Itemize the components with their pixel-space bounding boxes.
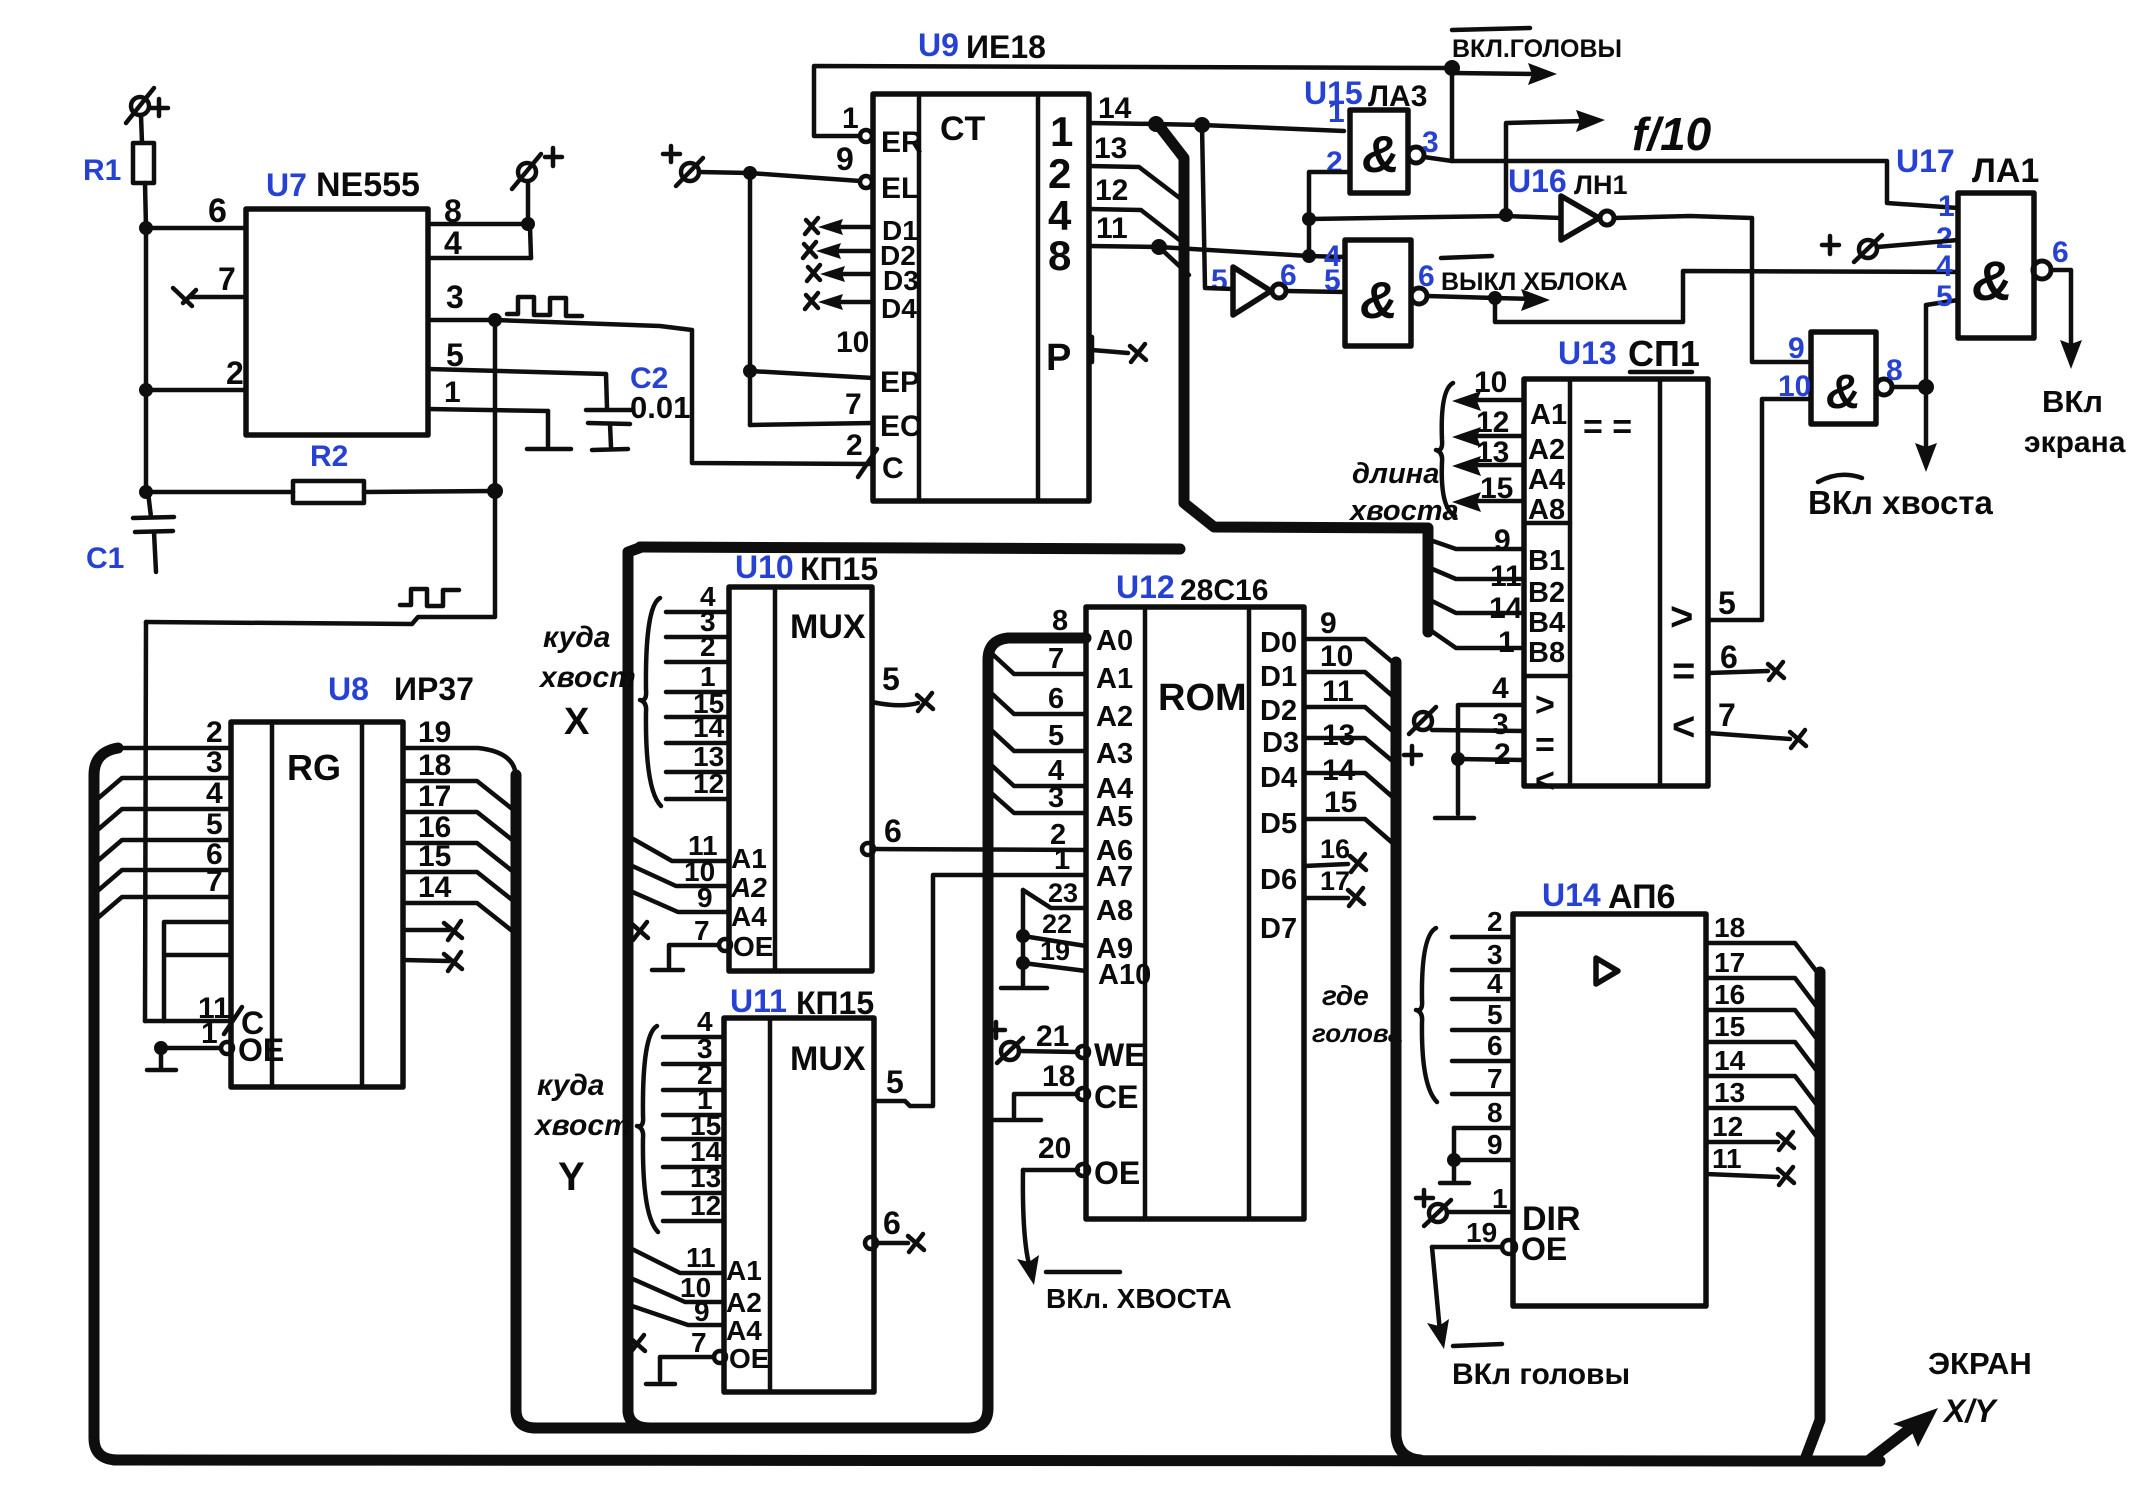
svg-text:11: 11 <box>1712 1143 1742 1174</box>
ROM D1 wire pin10 <box>1304 640 1396 699</box>
wire U7 pin6 <box>139 192 246 235</box>
svg-text:&: & <box>1972 249 2012 312</box>
svg-text:ВКл головы: ВКл головы <box>1452 1358 1630 1391</box>
power symbol +V above R1 <box>126 88 168 143</box>
svg-text:D6: D6 <box>1260 864 1297 896</box>
svg-text:11: 11 <box>1490 560 1522 593</box>
U13 output pin7 with x <box>1708 697 1806 748</box>
label длина хвоста <box>1348 458 1459 527</box>
nand gate element 9/10/8 <box>1778 332 1903 424</box>
U9 output wire 14 <box>1089 92 1344 133</box>
svg-text:АП6: АП6 <box>1608 878 1675 916</box>
svg-text:>: > <box>1535 686 1555 724</box>
U14 input wire 9 tied to 8 and ground <box>1440 1128 1513 1183</box>
square wave symbol at pin3 <box>507 297 582 316</box>
svg-text:6: 6 <box>1048 683 1064 715</box>
svg-text:СП1: СП1 <box>1628 333 1700 374</box>
ROM D4 wire pin14 <box>1304 754 1396 800</box>
svg-text:ЛА1: ЛА1 <box>1972 152 2039 190</box>
svg-text:3: 3 <box>1422 126 1439 159</box>
U11 data input 15 <box>663 1110 724 1141</box>
U13 A4 arrow pin13 <box>1452 436 1565 496</box>
svg-text:A1: A1 <box>731 843 767 874</box>
brace U10 inputs <box>640 598 661 806</box>
mux U10 box <box>729 549 878 971</box>
svg-text:X: X <box>564 701 590 743</box>
svg-text:7: 7 <box>691 1327 707 1358</box>
U13 control pin3 from +V <box>1404 707 1524 764</box>
U11 data input 2 <box>663 1059 724 1090</box>
wire pin3 node down to clock line <box>146 320 495 624</box>
U11 data input 14 <box>663 1136 724 1167</box>
svg-text:голова: голова <box>1312 1018 1403 1048</box>
svg-text:6: 6 <box>1280 259 1297 292</box>
svg-text:0.01: 0.01 <box>630 390 690 425</box>
U8 output wire 18 <box>403 749 516 812</box>
svg-text:5: 5 <box>1718 585 1736 621</box>
svg-text:20: 20 <box>1038 1132 1071 1165</box>
U11 select A2 pin10 <box>626 1272 762 1318</box>
U9 input D3 with x <box>807 265 919 296</box>
ROM A3 wire pin5 <box>988 720 1086 752</box>
U8 input wire 3 <box>94 746 231 802</box>
brace U14 inputs <box>1416 928 1437 1102</box>
svg-text:5: 5 <box>886 1064 904 1100</box>
U11 data input 13 <box>663 1162 724 1193</box>
svg-text:ER: ER <box>881 126 923 159</box>
U8 input wire 6 <box>94 838 231 894</box>
svg-text:ВКл: ВКл <box>2042 384 2103 419</box>
wire clock vertical to U8 C <box>145 622 146 1021</box>
svg-text:8: 8 <box>1886 354 1903 387</box>
svg-text:18: 18 <box>418 749 451 782</box>
U9 input D4 with x <box>805 293 917 324</box>
mux U11 box <box>724 983 874 1392</box>
svg-text:КП15: КП15 <box>800 551 878 587</box>
svg-text:9: 9 <box>1494 524 1511 557</box>
wire U7 pin1 to ground <box>428 376 571 449</box>
svg-text:хвоста: хвоста <box>1348 495 1459 527</box>
U10 data input 2 <box>666 631 729 662</box>
U10 data input 15 <box>666 688 729 719</box>
svg-text:где: где <box>1322 980 1369 1011</box>
thick bus U9 outputs down to comparator B <box>1160 127 1428 632</box>
svg-text:МUХ: МUХ <box>790 608 866 646</box>
U9 pin1 ER wire over the top <box>814 66 1452 159</box>
svg-text:7: 7 <box>218 261 236 297</box>
svg-text:EP: EP <box>880 366 920 399</box>
label куда хвост X <box>538 621 636 743</box>
svg-text:5: 5 <box>1487 999 1503 1030</box>
ROM D3 wire pin13 <box>1304 719 1396 764</box>
svg-text:9: 9 <box>1788 332 1805 365</box>
svg-text:хвост: хвост <box>533 1109 631 1142</box>
ROM A8 wire pin23 <box>1023 878 1086 908</box>
svg-text:OE: OE <box>729 1343 769 1374</box>
svg-text:5: 5 <box>1324 264 1341 297</box>
svg-text:OE: OE <box>1521 1231 1567 1267</box>
U14 output wire 17 <box>1706 947 1820 1011</box>
U8 unused output x stub 1 <box>403 921 462 940</box>
svg-text:D3: D3 <box>1262 727 1299 759</box>
power +V at ROM WE <box>988 1022 1023 1063</box>
svg-text:U17: U17 <box>1896 143 1955 179</box>
wire U17 output 6 arrow ВКл экрана <box>2024 270 2126 459</box>
U8 unused output x stub 2 <box>403 952 462 971</box>
svg-text:9: 9 <box>697 882 713 913</box>
svg-text:экрана: экрана <box>2024 426 2126 459</box>
svg-text:8: 8 <box>444 193 462 229</box>
svg-text:1: 1 <box>1938 190 1955 223</box>
svg-text:ЭКРАН: ЭКРАН <box>1928 1346 2032 1381</box>
svg-text:3: 3 <box>446 279 464 315</box>
svg-text:17: 17 <box>1714 947 1745 978</box>
svg-text:A0: A0 <box>1096 625 1133 657</box>
U14 output wire 18 <box>1706 912 1820 976</box>
ROM D0 wire pin9 <box>1304 607 1396 665</box>
wire U15b output to U17 pin4 <box>1495 271 1958 322</box>
U9 pin10 EP wire <box>743 326 920 399</box>
svg-text:U14: U14 <box>1542 877 1601 913</box>
svg-text:WE: WE <box>1094 1037 1146 1073</box>
svg-text:RG: RG <box>287 747 341 788</box>
svg-text:КП15: КП15 <box>796 985 874 1021</box>
svg-text:A2: A2 <box>1096 701 1133 733</box>
svg-text:ВЫКЛ ХБЛОКА: ВЫКЛ ХБЛОКА <box>1441 268 1628 296</box>
svg-text:длина: длина <box>1352 458 1439 490</box>
U8 output wire 16 <box>403 811 516 874</box>
svg-text:15: 15 <box>418 840 451 873</box>
svg-text:B2: B2 <box>1528 577 1565 609</box>
U13 B labels <box>1528 545 1565 669</box>
svg-text:ИР37: ИР37 <box>394 671 474 707</box>
U14 input wire 4 <box>1452 968 1513 999</box>
U8 left bus thick <box>94 748 118 1460</box>
svg-text:6: 6 <box>1487 1030 1503 1061</box>
thick bus U14 outputs down <box>1806 972 1820 1457</box>
wire U7 pin4 <box>428 225 531 261</box>
svg-text:Y: Y <box>558 1155 585 1199</box>
wire U7 pin7 with x <box>173 261 246 306</box>
U8 pin 11 clock C <box>145 992 264 1041</box>
U14 OE pin19 arrow ВКл головы <box>1427 1217 1630 1391</box>
register U8 box <box>231 671 474 1087</box>
svg-text:A8: A8 <box>1528 494 1565 526</box>
svg-text:19: 19 <box>1466 1217 1497 1248</box>
U11 output 6 with x <box>865 1205 924 1252</box>
U8 output wire 19 <box>403 716 516 778</box>
U8 output wire 15 <box>403 840 516 903</box>
svg-text:U12: U12 <box>1116 569 1175 605</box>
svg-text:10: 10 <box>836 326 869 359</box>
svg-text:14: 14 <box>1322 754 1356 787</box>
U10 output 6 to ROM A6 <box>862 813 1086 855</box>
ROM A2 wire pin6 <box>988 683 1086 715</box>
wire U15b output node ВЫКЛ ХБЛОКА arrow <box>1427 256 1628 311</box>
svg-text:CT: CT <box>940 110 986 148</box>
inverter element 5/6 <box>1211 259 1297 315</box>
U13 output pin6 with x <box>1708 639 1784 680</box>
ROM CE pin18 grounded <box>987 1060 1138 1120</box>
svg-text:11: 11 <box>1096 212 1128 245</box>
U14 input wire 8 <box>1454 1097 1513 1128</box>
svg-text:7: 7 <box>206 865 223 898</box>
svg-text:13: 13 <box>690 1162 721 1193</box>
square wave symbol above U8 <box>400 589 459 606</box>
U13 A8 arrow pin15 <box>1452 472 1565 526</box>
ROM WE pin21 <box>1019 1020 1146 1073</box>
svg-text:6: 6 <box>208 192 227 230</box>
wire counter bit1 to inverter input <box>1202 125 1233 289</box>
svg-text:2: 2 <box>206 716 223 749</box>
svg-text:D7: D7 <box>1260 913 1297 945</box>
svg-text:ЛА3: ЛА3 <box>1368 80 1427 113</box>
U14 output wire 15 <box>1706 1011 1820 1075</box>
U14 input wire 7 <box>1452 1063 1513 1094</box>
svg-text:1: 1 <box>444 376 461 409</box>
svg-text:19: 19 <box>418 716 451 749</box>
power +V at U17 pin2 <box>1822 235 1958 262</box>
comparator B4 tap wire 14 <box>1430 592 1524 625</box>
svg-text:A4: A4 <box>1528 464 1565 496</box>
svg-text:4: 4 <box>206 777 223 810</box>
U8 output wire 14 <box>403 871 516 934</box>
svg-text:1: 1 <box>842 102 859 135</box>
svg-text:2: 2 <box>1487 906 1503 937</box>
U8 input wire 5 <box>94 808 231 864</box>
U9 carry P output with x <box>1046 337 1146 379</box>
svg-text:U13: U13 <box>1558 335 1617 371</box>
svg-text:D0: D0 <box>1260 627 1297 659</box>
U10 output 5 with x <box>872 661 933 711</box>
svg-text:B8: B8 <box>1528 637 1565 669</box>
svg-text:D1: D1 <box>1260 661 1297 693</box>
U8 input wire 7 <box>94 865 231 921</box>
svg-text:NE555: NE555 <box>316 166 420 204</box>
U9 output wire 12 <box>1089 174 1182 242</box>
wire R1 node down to pin2 <box>144 228 149 390</box>
U11 select A1 pin11 <box>626 1242 762 1286</box>
power +V at U9 EL <box>663 146 703 186</box>
op IC U7 NE555 box <box>246 166 428 435</box>
thick bus ROM data down to bottom bus <box>1396 662 1420 1460</box>
svg-text:13: 13 <box>1322 719 1355 752</box>
U11 OE pin7 with ground <box>629 1327 769 1384</box>
svg-text:A8: A8 <box>1096 895 1133 927</box>
svg-text:1: 1 <box>1498 626 1515 659</box>
svg-text:15: 15 <box>1324 786 1357 819</box>
svg-text:18: 18 <box>1042 1060 1075 1093</box>
svg-text:6: 6 <box>884 813 902 849</box>
comparator B1 tap wire 9 <box>1430 524 1524 557</box>
U11 data input 12 <box>663 1190 724 1221</box>
svg-text:9: 9 <box>1320 607 1337 640</box>
svg-text:U11: U11 <box>730 983 787 1019</box>
svg-text:5: 5 <box>1211 264 1228 297</box>
U13 control pin4 <box>1458 672 1524 759</box>
wire comparator out5 to gate pin10 <box>1708 399 1811 620</box>
svg-text:11: 11 <box>686 1242 716 1273</box>
svg-text:1: 1 <box>1054 844 1070 876</box>
f/10 tap arrow <box>1506 108 1712 215</box>
U9 input D2 with x <box>803 240 916 271</box>
svg-text:U16: U16 <box>1508 163 1567 199</box>
U14 input wire 2 <box>1452 906 1513 937</box>
U8 pin 1 OE with ground <box>147 1017 284 1070</box>
U14 input wire 6 <box>1452 1030 1513 1061</box>
wire U16 output to gate pin9 <box>1614 216 1811 362</box>
svg-text:3: 3 <box>206 746 223 779</box>
svg-text:U8: U8 <box>328 671 369 707</box>
svg-text:OE: OE <box>238 1032 284 1068</box>
U14 output 11 with x <box>1706 1143 1794 1185</box>
svg-text:2: 2 <box>1494 738 1511 771</box>
svg-text:&: & <box>1362 126 1400 184</box>
svg-text:2: 2 <box>226 355 244 391</box>
svg-text:МUХ: МUХ <box>790 1040 866 1078</box>
svg-text:21: 21 <box>1036 1020 1069 1053</box>
svg-text:A3: A3 <box>1096 738 1133 770</box>
U9 pin9 EL wire <box>699 141 919 205</box>
U10 OE pin7 with ground <box>632 915 773 970</box>
svg-text:22: 22 <box>1042 909 1072 939</box>
ROM D6 stub pin16 with x <box>1304 834 1366 872</box>
wire gate output 8 node <box>1892 300 1958 395</box>
U8 input wire 2 <box>110 716 231 749</box>
svg-text:X/Y: X/Y <box>1942 1393 1998 1429</box>
label куда хвост Y <box>533 1069 631 1199</box>
comparator B8 tap wire 1 <box>1430 626 1524 659</box>
wire node down to R2/C1 <box>144 390 149 492</box>
capacitor C2 <box>586 362 690 450</box>
svg-text:EL: EL <box>881 172 919 205</box>
U14 output wire 13 <box>1706 1077 1820 1141</box>
svg-text:1: 1 <box>1492 1183 1508 1214</box>
U9 output column digits 1 2 4 8 <box>1048 108 1073 279</box>
svg-text:>: > <box>1670 595 1693 639</box>
thick arrow экран X/Y <box>1868 1346 2032 1461</box>
U14 input wire 5 <box>1452 999 1513 1030</box>
U10 select A1 pin11 <box>628 830 767 874</box>
svg-text:ИЕ18: ИЕ18 <box>966 29 1046 65</box>
svg-text:1: 1 <box>1328 96 1345 129</box>
svg-text:D5: D5 <box>1260 808 1297 840</box>
svg-text:EC: EC <box>880 410 922 443</box>
U10 data input 1 <box>666 661 729 692</box>
svg-text:4: 4 <box>444 225 462 261</box>
U10 data input 4 <box>666 581 729 612</box>
svg-text:9: 9 <box>694 1296 710 1327</box>
svg-text:A1: A1 <box>726 1255 762 1286</box>
svg-text:D2: D2 <box>1260 695 1297 727</box>
svg-text:A4: A4 <box>731 901 767 932</box>
U13 control pin2 tied to pin4 and ground <box>1435 738 1524 818</box>
U11 data input 1 <box>663 1084 724 1115</box>
svg-text:12: 12 <box>1476 406 1509 439</box>
svg-text:2: 2 <box>700 631 716 662</box>
ROM U12 box <box>1086 569 1304 1219</box>
svg-text:7: 7 <box>1718 697 1736 733</box>
U14 input wire 3 <box>1452 939 1513 970</box>
ROM D7 stub pin17 with x <box>1304 866 1364 906</box>
U11 output 5 to ROM A7 <box>874 875 1086 1106</box>
wire U15 pin2 from counter bit8 node <box>1302 172 1561 263</box>
svg-text:19: 19 <box>1040 936 1070 966</box>
U9 input D1 with x <box>805 215 918 246</box>
wire inverter out to U15b pin5 <box>1286 291 1345 292</box>
svg-text:9: 9 <box>1487 1129 1503 1160</box>
svg-text:R1: R1 <box>83 154 121 187</box>
svg-text:15: 15 <box>1480 472 1513 505</box>
svg-text:6: 6 <box>883 1205 901 1241</box>
brace for A inputs <box>1436 383 1455 516</box>
svg-text:2: 2 <box>846 429 863 462</box>
svg-text:12: 12 <box>1712 1111 1743 1142</box>
svg-text:C: C <box>882 452 904 485</box>
svg-text:16: 16 <box>1320 834 1350 864</box>
svg-text:3: 3 <box>1487 939 1503 970</box>
U14 output wire 14 <box>1706 1045 1820 1109</box>
U11 data input 3 <box>663 1033 724 1064</box>
U13 A2 arrow pin12 <box>1452 406 1565 466</box>
svg-text:2: 2 <box>1048 150 1071 197</box>
U11 data input 4 <box>663 1006 724 1037</box>
svg-text:7: 7 <box>694 915 710 946</box>
svg-text:8: 8 <box>1052 605 1068 637</box>
svg-text:3: 3 <box>1492 708 1509 741</box>
wire U7 pin3 clock out <box>428 279 873 464</box>
U14 output 12 with x <box>1706 1111 1794 1150</box>
svg-text:1: 1 <box>201 1017 218 1050</box>
svg-text:= =: = = <box>1583 408 1632 446</box>
ROM address labels A0-A10 <box>1096 625 1151 991</box>
svg-text:6: 6 <box>2052 236 2069 269</box>
svg-text:=: = <box>1672 649 1695 693</box>
svg-text:ВКЛ.ГОЛОВЫ: ВКЛ.ГОЛОВЫ <box>1452 35 1622 63</box>
svg-text:10: 10 <box>1320 640 1353 673</box>
svg-text:23: 23 <box>1048 878 1078 908</box>
svg-text:A4: A4 <box>726 1315 762 1346</box>
svg-text:A2: A2 <box>1528 434 1565 466</box>
svg-text:U7: U7 <box>266 167 307 203</box>
svg-text:14: 14 <box>1714 1045 1746 1076</box>
svg-text:A10: A10 <box>1098 959 1151 991</box>
U8 input wire 4 <box>94 777 231 833</box>
nand gate U17 (ЛА1) <box>1896 143 2069 338</box>
ROM A9 wire pin22 tied low <box>1016 890 1086 985</box>
U8 tied pins loop <box>164 922 231 1021</box>
svg-text:14: 14 <box>1489 592 1523 625</box>
U10 select A2 pin10 <box>628 856 767 903</box>
svg-text:U9: U9 <box>918 27 959 63</box>
node ВКЛ хвоста arrow down <box>1808 387 1994 521</box>
svg-text:хвост: хвост <box>538 661 636 694</box>
svg-text:15: 15 <box>1714 1011 1745 1042</box>
svg-text:<: < <box>1535 762 1555 800</box>
svg-text:12: 12 <box>1095 174 1128 207</box>
svg-text:17: 17 <box>418 780 451 813</box>
U11 select A4 pin9 <box>626 1296 762 1346</box>
svg-text:7: 7 <box>845 388 862 421</box>
svg-text:17: 17 <box>1320 866 1350 896</box>
wire U15 output 3 long to U17 pin1 <box>1424 157 1958 208</box>
wire EL node down <box>748 173 753 425</box>
svg-text:D4: D4 <box>1260 762 1297 794</box>
ROM A4 wire pin4 <box>988 755 1086 787</box>
svg-text:куда: куда <box>537 1069 605 1102</box>
svg-text:ВКл. ХВОСТА: ВКл. ХВОСТА <box>1046 1283 1232 1314</box>
comparator B2 tap wire 11 <box>1430 560 1524 593</box>
